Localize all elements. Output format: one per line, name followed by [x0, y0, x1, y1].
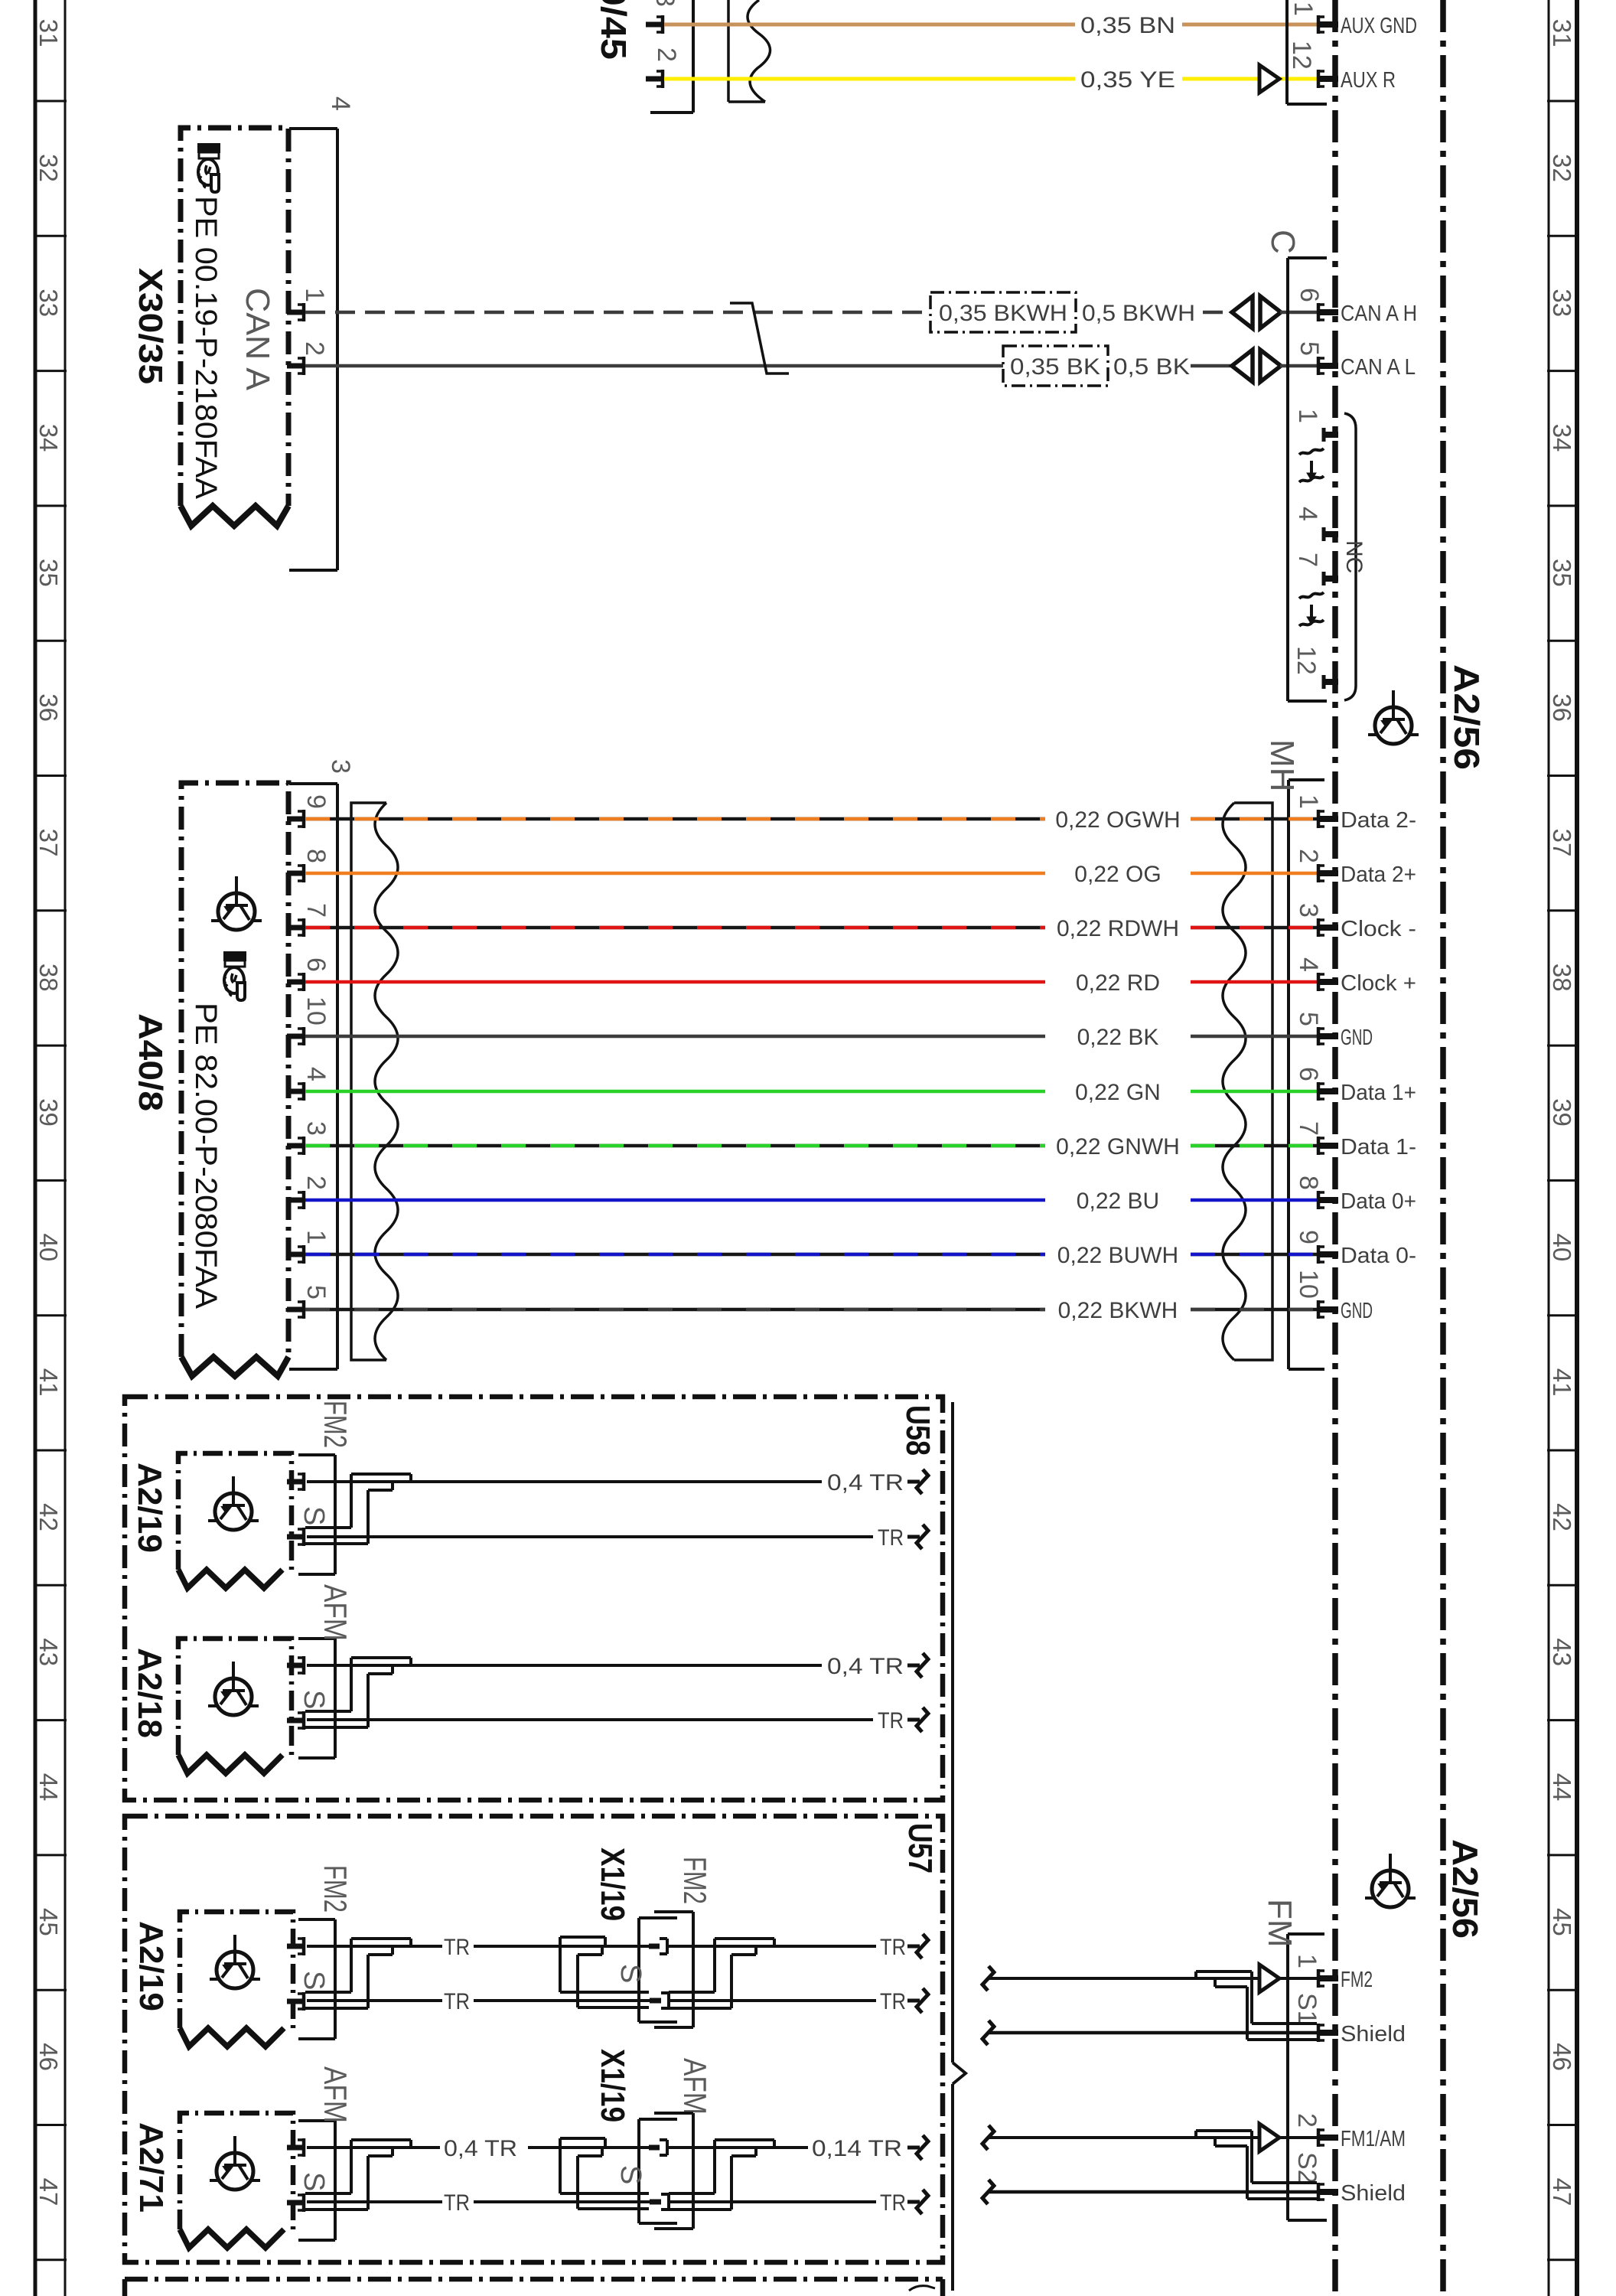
- svg-text:TR: TR: [444, 1935, 470, 1960]
- A40/8 pin 1: [287, 1245, 304, 1264]
- A40/8 pin 2: [287, 1191, 304, 1209]
- svg-text:10: 10: [301, 996, 331, 1026]
- svg-text:X1/19: X1/19: [594, 1848, 631, 1921]
- component A40/8 box: [181, 783, 288, 1357]
- option squiggle arrow (pins 7-12): [1299, 592, 1324, 626]
- svg-text:TR: TR: [444, 1989, 470, 2014]
- X30/35 pin 1: [287, 303, 304, 321]
- svg-text:1: 1: [300, 288, 329, 302]
- svg-text:44: 44: [1548, 1773, 1576, 1802]
- coax shield outline at FM1/S2: [1196, 2131, 1317, 2199]
- svg-text:42: 42: [1548, 1503, 1576, 1531]
- border ruler left strip: [34, 0, 37, 2296]
- svg-text:5: 5: [1294, 1012, 1323, 1026]
- svg-text:41: 41: [1548, 1368, 1576, 1397]
- svg-text:38: 38: [34, 964, 63, 992]
- svg-text:A2/71: A2/71: [132, 2122, 170, 2213]
- ground/transistor symbol inside A2/56 (top): [1368, 690, 1419, 744]
- svg-text:9: 9: [1294, 1230, 1323, 1244]
- svg-text:0,22 BKWH: 0,22 BKWH: [1058, 1298, 1178, 1323]
- wire 0,22 GN A40/8.4 to MH.6: [305, 1090, 1045, 1094]
- wire 0,22 BU A40/8.2 to MH.8: [305, 1199, 1045, 1202]
- svg-text:8: 8: [301, 849, 331, 863]
- svg-text:0,22 BK: 0,22 BK: [1077, 1025, 1159, 1050]
- svg-text:MH: MH: [1263, 739, 1301, 791]
- svg-text:43: 43: [1548, 1638, 1576, 1666]
- svg-text:32: 32: [34, 154, 63, 182]
- svg-text:2: 2: [301, 1176, 331, 1190]
- component A2/19 box: [180, 1912, 293, 2028]
- svg-text:36: 36: [34, 693, 63, 722]
- svg-text:S: S: [614, 1964, 647, 1983]
- coax shield outline: [305, 1658, 411, 1727]
- wire 0,22 RDWH A40/8.7 to MH.3: [305, 926, 1045, 930]
- antenna lead wire to FM pin 2: [982, 2125, 994, 2150]
- svg-text:TR: TR: [878, 1708, 904, 1733]
- X1/19 pin pair S (shield): [650, 2200, 661, 2205]
- wire TR X1/19 out (shield): [669, 1999, 876, 2002]
- svg-text:TR: TR: [878, 1525, 904, 1551]
- A40/8 pin 9: [287, 810, 304, 828]
- svg-text:43: 43: [34, 1638, 63, 1666]
- svg-text:1: 1: [1293, 409, 1322, 423]
- svg-text:0,4 TR: 0,4 TR: [827, 1654, 904, 1679]
- svg-text:Shield: Shield: [1341, 2181, 1406, 2206]
- svg-text:0,22 BU: 0,22 BU: [1077, 1189, 1159, 1214]
- svg-text:S: S: [614, 2165, 647, 2184]
- pin S (shield): [287, 2193, 304, 2212]
- svg-text:2: 2: [652, 47, 681, 62]
- wire TR shield from A2/19: [307, 1535, 873, 1538]
- svg-text:5: 5: [1295, 341, 1324, 356]
- connector X1/19 bracket right: [654, 2113, 693, 2229]
- svg-text:0,35 BK: 0,35 BK: [1010, 354, 1100, 380]
- svg-text:6: 6: [301, 957, 331, 972]
- wire TR A2/19 to X1/19: [307, 1945, 442, 1948]
- svg-text:CAN A H: CAN A H: [1341, 302, 1417, 326]
- A40/8 pin 3: [287, 1137, 304, 1155]
- svg-text:32: 32: [1548, 154, 1576, 182]
- svg-text:Clock +: Clock +: [1341, 971, 1416, 996]
- svg-text:GND: GND: [1341, 1299, 1373, 1323]
- A40/8 pin 7: [287, 918, 304, 937]
- coax shield outline (X1/19 female side): [669, 2140, 774, 2210]
- svg-text:3: 3: [1294, 903, 1323, 918]
- svg-text:33: 33: [34, 289, 63, 317]
- A40/8 pin 6: [287, 973, 304, 991]
- svg-text:6: 6: [1295, 288, 1324, 302]
- transistor symbol in A40/8: [211, 876, 262, 930]
- svg-text:S: S: [298, 1506, 330, 1525]
- svg-text:Data 2+: Data 2+: [1341, 863, 1416, 887]
- coax shield outline (X1/19 male side): [560, 2138, 649, 2209]
- transistor symbol in A2/71: [210, 2136, 260, 2190]
- plug symbols CAN A L: [1232, 350, 1281, 382]
- svg-text:4: 4: [326, 96, 355, 111]
- svg-text:U57: U57: [901, 1823, 939, 1874]
- transistor symbol in A2/18: [208, 1662, 259, 1715]
- A40/8 pin 4: [287, 1082, 304, 1101]
- pin (signal): [287, 1656, 304, 1675]
- svg-text:0,22 RD: 0,22 RD: [1076, 970, 1160, 996]
- coax shield outline: [305, 2140, 411, 2210]
- svg-text:FM2: FM2: [677, 1857, 713, 1904]
- svg-text:A2/56: A2/56: [1445, 1839, 1485, 1939]
- svg-text:40: 40: [34, 1234, 63, 1262]
- svg-text:1: 1: [1294, 794, 1323, 809]
- svg-text:1: 1: [1289, 2, 1318, 16]
- next component box (cut off at page bottom): [125, 2279, 943, 2296]
- svg-text:46: 46: [34, 2043, 63, 2071]
- wire TR shield from A2/18: [307, 1718, 873, 1721]
- connector X30/45 pin 2: [646, 70, 663, 88]
- svg-text:PE 82.00-P-2080FAA: PE 82.00-P-2080FAA: [189, 1003, 223, 1309]
- connector bracket AFM: [298, 2121, 335, 2240]
- cable shield left (A40/8): [351, 803, 386, 1360]
- wire 0,22 RD A40/8.6 to MH.4: [305, 980, 1045, 984]
- svg-text:Data 0+: Data 0+: [1341, 1189, 1416, 1214]
- svg-text:0,5 BKWH: 0,5 BKWH: [1082, 301, 1195, 326]
- svg-text:45: 45: [1548, 1908, 1576, 1936]
- svg-text:0,22 OGWH: 0,22 OGWH: [1055, 807, 1180, 833]
- direction triangle on FM1/AM wire: [1259, 2124, 1279, 2151]
- component A2/71 box: [180, 2113, 293, 2229]
- svg-text:8: 8: [1294, 1176, 1323, 1190]
- svg-text:0,22 RDWH: 0,22 RDWH: [1057, 916, 1179, 941]
- svg-text:12: 12: [1292, 646, 1321, 675]
- svg-text:C: C: [1264, 230, 1302, 254]
- svg-text:Clock -: Clock -: [1341, 917, 1416, 941]
- cable shield right (A40/8 to MH): [1234, 803, 1272, 1360]
- wire 0,35 BN pin3 to AUX GND: [664, 23, 1075, 27]
- svg-text:TR: TR: [880, 1989, 906, 2014]
- transistor symbol in A2/19: [210, 1935, 260, 1988]
- connector bracket 4 on X30/35: [289, 129, 337, 570]
- transistor symbol in A2/19: [208, 1476, 259, 1530]
- NC bracket: [1344, 413, 1356, 700]
- svg-text:9: 9: [301, 794, 331, 809]
- svg-text:S: S: [298, 1971, 330, 1990]
- svg-text:A40/8: A40/8: [132, 1013, 169, 1111]
- svg-text:0,5 BK: 0,5 BK: [1113, 354, 1190, 380]
- wire TR X1/19 out (signal): [667, 1945, 876, 1948]
- component A2/71 zigzag break: [180, 2229, 284, 2248]
- svg-text:GND: GND: [1341, 1026, 1373, 1050]
- svg-text:Data 2-: Data 2-: [1341, 808, 1416, 833]
- wire 0,4 TR A2/71 to X1/19: [307, 2146, 440, 2149]
- svg-text:FM2: FM2: [318, 1401, 353, 1448]
- hand symbol in X30/35: [198, 144, 220, 192]
- svg-text:TR: TR: [880, 1935, 906, 1960]
- svg-text:X30/45: X30/45: [594, 0, 634, 60]
- svg-text:AFM: AFM: [677, 2058, 713, 2115]
- twisted pair symbol: [730, 303, 789, 373]
- svg-text:Shield: Shield: [1341, 2022, 1406, 2047]
- svg-text:45: 45: [34, 1908, 63, 1936]
- cable shield (top): [728, 0, 765, 102]
- A40/8 pin 8: [287, 864, 304, 882]
- wire 0,22 BKWH A40/8.5 to MH.10: [305, 1308, 1045, 1312]
- component U58 box: [125, 1397, 943, 1800]
- svg-text:0,4 TR: 0,4 TR: [827, 1470, 904, 1495]
- svg-text:37: 37: [34, 829, 63, 857]
- svg-text:2: 2: [1294, 849, 1323, 863]
- component A40/8 zigzag break: [181, 1357, 288, 1376]
- coax shield outline: [305, 1474, 411, 1544]
- connector X1/19 bracket right: [654, 1912, 693, 2027]
- svg-text:AUX R: AUX R: [1341, 68, 1396, 93]
- svg-text:6: 6: [1294, 1067, 1323, 1081]
- svg-text:0,22 BUWH: 0,22 BUWH: [1057, 1243, 1178, 1268]
- svg-text:1: 1: [301, 1230, 331, 1244]
- svg-text:TR: TR: [880, 2190, 906, 2216]
- svg-text:31: 31: [1548, 19, 1576, 47]
- connector bracket C (on A2/56): [1288, 258, 1327, 701]
- pin (signal): [287, 1473, 304, 1491]
- svg-text:CAN A: CAN A: [239, 288, 276, 391]
- pin S (shield): [287, 1528, 304, 1546]
- grouping line with brace: [953, 1402, 966, 2291]
- svg-text:0,35 BKWH: 0,35 BKWH: [939, 301, 1067, 326]
- pin S (shield): [287, 1992, 304, 2011]
- component X30/35 zigzag break (bottom): [181, 506, 288, 526]
- X1/19 pin pair (signal): [649, 1944, 660, 1949]
- svg-text:TR: TR: [444, 2190, 470, 2216]
- svg-text:PE 00.19-P-2180FAA: PE 00.19-P-2180FAA: [189, 196, 223, 499]
- connector X1/19 bracket left: [639, 2119, 677, 2223]
- svg-text:0,22 GN: 0,22 GN: [1075, 1080, 1161, 1105]
- svg-text:Data 1-: Data 1-: [1341, 1135, 1416, 1159]
- svg-text:A2/19: A2/19: [132, 1921, 170, 2011]
- pin (signal): [287, 1937, 304, 1955]
- wire TR shield A2/19 to X1/19: [307, 1999, 442, 2002]
- svg-text:A2/19: A2/19: [131, 1463, 168, 1553]
- hand symbol in A40/8: [224, 952, 246, 1000]
- svg-text:S1: S1: [1292, 1993, 1321, 2025]
- wire 0,35 YE pin2 to AUX R: [664, 77, 1075, 81]
- coax shield outline: [305, 1939, 411, 2008]
- component A2/19 box: [178, 1453, 292, 1570]
- svg-text:X1/19: X1/19: [594, 2049, 631, 2122]
- coax shield outline at FM2/S1: [1196, 1971, 1317, 2040]
- svg-text:31: 31: [34, 19, 63, 47]
- svg-text:S2: S2: [1292, 2152, 1321, 2184]
- wire label box 0,35 BKWH: [930, 292, 1076, 332]
- component A2/19 zigzag break: [180, 2028, 284, 2047]
- svg-text:10: 10: [1294, 1270, 1323, 1299]
- connector bracket AFM: [298, 1639, 335, 1758]
- svg-text:44: 44: [34, 1773, 63, 1802]
- wire CAN A H 0,35 BKWH (dashed): [305, 311, 930, 315]
- wire TR X1/19 out (shield): [669, 2200, 876, 2203]
- svg-text:5: 5: [301, 1285, 331, 1300]
- connector bracket MH (on A2/56): [1289, 780, 1324, 1369]
- X1/19 pin pair (signal): [649, 2145, 660, 2151]
- svg-text:2: 2: [1292, 2113, 1321, 2128]
- svg-text:42: 42: [34, 1503, 63, 1531]
- wire 0,22 GNWH A40/8.3 to MH.7: [305, 1144, 1045, 1148]
- wire 0,22 OGWH A40/8.9 to MH.1: [305, 817, 1045, 821]
- component A2/18 box: [178, 1639, 292, 1755]
- svg-text:33: 33: [1548, 289, 1576, 317]
- connector bracket 3 on A40/8: [289, 784, 337, 1369]
- wire CAN A L 0,35 BK: [305, 364, 1003, 368]
- wire TR shield A2/71 to X1/19: [307, 2200, 442, 2203]
- svg-text:37: 37: [1548, 829, 1576, 857]
- hand symbol fragment (bottom): [909, 2286, 935, 2291]
- coax shield outline (X1/19 female side): [669, 1939, 774, 2008]
- connector bracket X30/45: [650, 0, 693, 113]
- svg-text:41: 41: [34, 1368, 63, 1397]
- svg-text:A2/56: A2/56: [1447, 664, 1487, 770]
- plug symbols CAN A H: [1232, 296, 1281, 328]
- component A2/18 zigzag break: [178, 1755, 282, 1773]
- svg-text:7: 7: [1293, 553, 1322, 567]
- svg-text:39: 39: [34, 1098, 63, 1127]
- wire 0,4 TR from A2/19: [307, 1480, 822, 1483]
- svg-text:0,22 GNWH: 0,22 GNWH: [1056, 1134, 1180, 1159]
- svg-text:FM: FM: [1261, 1899, 1298, 1948]
- coax shield outline (X1/19 male side): [560, 1937, 649, 2007]
- svg-text:0,35 YE: 0,35 YE: [1080, 67, 1175, 93]
- component U57 box: [125, 1816, 943, 2262]
- svg-text:0,4 TR: 0,4 TR: [444, 2136, 517, 2161]
- ground/transistor symbol inside A2/56 (bottom): [1365, 1854, 1416, 1907]
- svg-text:46: 46: [1548, 2043, 1576, 2071]
- border ruler right strip: [1548, 0, 1550, 2296]
- svg-text:1: 1: [1292, 1954, 1321, 1968]
- connector bracket FM (on A2/56): [1288, 1934, 1327, 2220]
- svg-text:AUX GND: AUX GND: [1341, 14, 1417, 38]
- wire 0,22 BUWH A40/8.1 to MH.9: [305, 1253, 1045, 1257]
- option squiggle arrow (pins 1-4): [1299, 448, 1324, 482]
- svg-text:47: 47: [1548, 2178, 1576, 2206]
- svg-text:0,22 OG: 0,22 OG: [1074, 862, 1161, 887]
- svg-text:X30/35: X30/35: [132, 268, 169, 384]
- svg-text:7: 7: [1294, 1121, 1323, 1136]
- connector X30/45 pin 3: [646, 15, 663, 34]
- component A2/56 right boundary line: [1440, 0, 1446, 2296]
- svg-text:3: 3: [326, 759, 355, 774]
- svg-text:4: 4: [1293, 507, 1322, 521]
- antenna lead wire to FM pin S1: [982, 2020, 994, 2045]
- svg-text:AFM: AFM: [318, 1584, 353, 1641]
- svg-text:3: 3: [301, 1121, 331, 1136]
- wire 0,14 TR X1/19 out (signal): [667, 2146, 808, 2149]
- wire label box 0,35 BK: [1003, 346, 1108, 386]
- connector X1/19 bracket left: [639, 1918, 677, 2022]
- connector bracket AUX (on A2/56): [1285, 0, 1289, 104]
- svg-text:AFM: AFM: [318, 2066, 353, 2123]
- svg-text:FM2: FM2: [1341, 1968, 1373, 1992]
- svg-text:34: 34: [1548, 424, 1576, 452]
- svg-text:U58: U58: [899, 1405, 937, 1456]
- A40/8 pin 5: [287, 1300, 304, 1319]
- svg-text:47: 47: [34, 2178, 63, 2206]
- pin (signal): [287, 2138, 304, 2157]
- svg-text:S: S: [298, 1690, 330, 1709]
- antenna lead wire to FM pin S2: [982, 2180, 994, 2204]
- svg-text:34: 34: [34, 424, 63, 452]
- A40/8 pin 10: [287, 1027, 304, 1045]
- svg-text:40: 40: [1548, 1234, 1576, 1262]
- svg-text:CAN A L: CAN A L: [1341, 355, 1416, 380]
- svg-text:0,14 TR: 0,14 TR: [812, 2136, 902, 2161]
- wire 0,22 OG A40/8.8 to MH.2: [305, 872, 1045, 876]
- svg-text:38: 38: [1548, 964, 1576, 992]
- svg-text:0,35 BN: 0,35 BN: [1080, 13, 1175, 38]
- svg-text:2: 2: [300, 341, 329, 356]
- antenna lead wire to FM pin 1: [982, 1966, 994, 1991]
- svg-text:36: 36: [1548, 693, 1576, 722]
- svg-text:4: 4: [1294, 957, 1323, 972]
- connector bracket FM2: [298, 1455, 335, 1574]
- wire 0,22 BK A40/8.10 to MH.5: [305, 1035, 1045, 1039]
- wire 0,4 TR from A2/18: [307, 1664, 822, 1667]
- svg-text:4: 4: [301, 1067, 331, 1081]
- svg-text:35: 35: [34, 559, 63, 587]
- svg-text:12: 12: [1287, 41, 1316, 70]
- svg-text:7: 7: [301, 903, 331, 918]
- component A2/56 left boundary line: [1332, 0, 1338, 2296]
- svg-text:Data 0-: Data 0-: [1341, 1244, 1416, 1268]
- component X30/35 box: [181, 128, 288, 506]
- svg-text:Data 1+: Data 1+: [1341, 1081, 1416, 1105]
- svg-text:39: 39: [1548, 1098, 1576, 1127]
- svg-text:S: S: [298, 2172, 330, 2191]
- direction triangle on FM2 wire: [1259, 1965, 1279, 1992]
- svg-text:A2/18: A2/18: [131, 1648, 168, 1738]
- component A2/19 zigzag break: [178, 1570, 282, 1588]
- svg-text:NC: NC: [1341, 540, 1367, 573]
- pin S (shield): [287, 1711, 304, 1730]
- X30/35 pin 2: [287, 357, 304, 375]
- connector bracket FM2: [298, 1919, 335, 2039]
- svg-text:3: 3: [650, 0, 679, 7]
- direction triangle on AUX R wire: [1259, 65, 1279, 93]
- svg-text:35: 35: [1548, 559, 1576, 587]
- X1/19 pin pair S (shield): [650, 1998, 661, 2004]
- svg-text:FM2: FM2: [318, 1865, 353, 1913]
- svg-text:FM1/AM: FM1/AM: [1341, 2127, 1406, 2151]
